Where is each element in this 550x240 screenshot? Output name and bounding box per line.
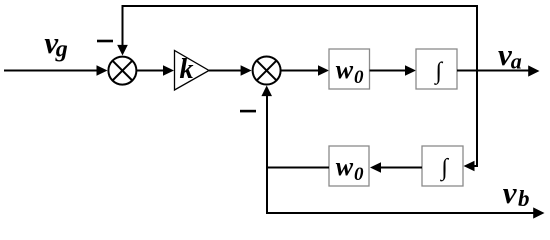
block integrator bottom bbox=[422, 146, 463, 186]
wire bottom w0 to left vertical bbox=[266, 167, 329, 169]
wire S1 to gain k bbox=[136, 70, 165, 72]
block integrator top bbox=[416, 49, 457, 89]
svg-text:w: w bbox=[336, 55, 354, 84]
wire bottom integrator to bottom w0 bbox=[380, 167, 422, 169]
gain block k (triangle) bbox=[175, 51, 210, 91]
wire input line from vg bbox=[4, 70, 98, 72]
arrowhead into bottom w0 bbox=[370, 162, 381, 172]
summing junction S1 bbox=[108, 57, 136, 85]
wire w0 to integrator top bbox=[370, 70, 407, 72]
svg-text:b: b bbox=[518, 186, 530, 211]
arrowhead up into S2 bottom bbox=[261, 86, 272, 97]
arrowhead into bottom integrator bbox=[464, 161, 475, 171]
svg-text:∫: ∫ bbox=[439, 155, 449, 182]
arrowhead into S2 bbox=[241, 65, 252, 75]
arrowhead down into summing junction S1 top bbox=[117, 45, 128, 56]
wire k to summing junction S2 bbox=[209, 70, 242, 72]
svg-text:k: k bbox=[180, 54, 194, 85]
arrowhead into top integrator bbox=[405, 65, 416, 75]
block w0 top bbox=[329, 49, 370, 89]
arrowhead into top w0 block bbox=[318, 65, 329, 75]
wire output va bbox=[457, 70, 529, 72]
arrowhead into gain k bbox=[163, 65, 174, 75]
summing junction S2 bbox=[253, 57, 281, 85]
block w0 bottom bbox=[329, 146, 369, 186]
svg-text:∫: ∫ bbox=[434, 58, 444, 85]
arrowhead into summing junction S1 bbox=[97, 65, 108, 75]
minus sign at S2 bbox=[240, 110, 256, 113]
svg-text:a: a bbox=[511, 49, 522, 74]
minus sign at S1 bbox=[97, 40, 113, 43]
wire bottom output vb bbox=[266, 212, 534, 214]
arrowhead output vb bbox=[533, 207, 544, 218]
wire top feedback loop bbox=[123, 6, 478, 71]
wire S2 to w0 block bbox=[281, 70, 319, 72]
wire left vertical up to S2 bbox=[266, 96, 268, 213]
svg-text:0: 0 bbox=[354, 164, 364, 185]
svg-text:0: 0 bbox=[354, 67, 364, 88]
svg-text:w: w bbox=[336, 152, 354, 181]
wire right feedback down bbox=[473, 71, 477, 167]
svg-text:g: g bbox=[55, 36, 68, 62]
arrowhead output va bbox=[528, 65, 539, 76]
svg-text:v: v bbox=[503, 175, 518, 210]
